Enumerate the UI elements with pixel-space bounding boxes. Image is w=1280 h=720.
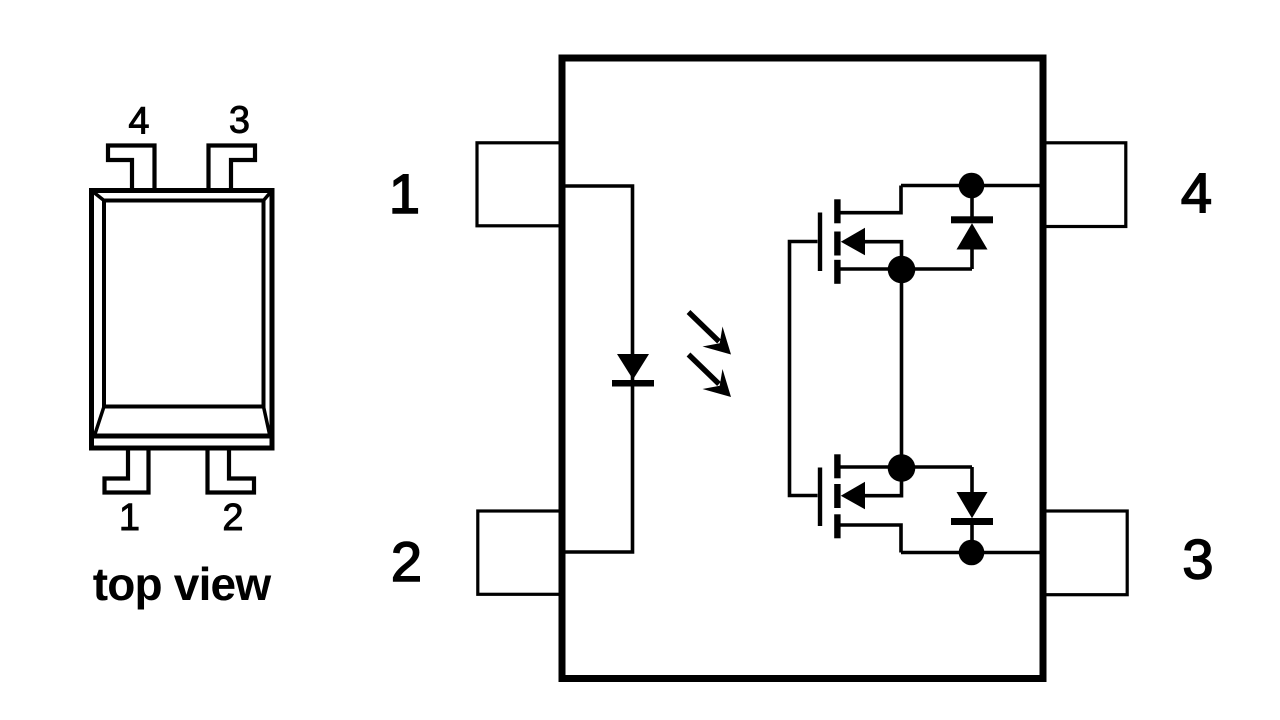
svg-text:top view: top view (93, 558, 272, 610)
package bottom face line (92, 434, 273, 439)
MOSFET Q2 drain wire (837, 525, 901, 553)
pin 3 tab (1043, 511, 1127, 595)
MOSFET Q2 gate bar (818, 468, 822, 527)
light emission arrow 1 (689, 312, 732, 355)
body diode D3 of Q2 (951, 467, 993, 553)
MOSFET Q1 gate bar (818, 213, 822, 272)
wire: pin1 to LED to pin2 (560, 186, 633, 552)
MOSFET Q1 source wire (837, 267, 972, 271)
node dot: Q2 source (888, 454, 916, 482)
MOSFET Q2 source wire (837, 465, 972, 469)
MOSFET Q2 channel dashes (834, 454, 840, 538)
light emission arrow 2 (689, 355, 732, 398)
MOSFET Q1 body wire (863, 242, 902, 269)
pin 4 lead (top-left) (108, 146, 155, 191)
svg-text:3: 3 (1182, 528, 1213, 591)
pin 4 tab (1043, 143, 1126, 227)
wire: source-source link (900, 269, 904, 468)
pin 3 lead (top-right) (209, 146, 256, 191)
node dot: Q1 source (888, 256, 916, 284)
node dot: drain bottom (959, 540, 985, 566)
LED D1 triangle (617, 354, 649, 380)
pin 1 lead (bottom-left) (105, 446, 149, 493)
MOSFET Q2 body wire (863, 468, 902, 496)
pin 1 tab (477, 143, 562, 226)
MOSFET Q1 channel dashes (834, 199, 840, 283)
wire: bottom rail to pin 3 (901, 551, 1043, 555)
svg-text:1: 1 (119, 497, 140, 539)
MOSFET Q1 body arrow (841, 228, 865, 256)
pin 2 tab (478, 511, 562, 594)
LED D1 cathode bar (612, 380, 654, 387)
package body outer outline (92, 191, 273, 449)
svg-text:3: 3 (229, 100, 250, 142)
MOSFET Q2 body arrow (841, 482, 865, 510)
body diode D2 of Q1 (951, 186, 993, 270)
svg-text:1: 1 (389, 162, 420, 225)
node dot: drain top (959, 173, 985, 199)
package corner bevel diagonals (92, 191, 273, 435)
svg-text:4: 4 (1181, 161, 1212, 224)
MOSFET Q1 drain wire (837, 186, 901, 213)
gate bus wire (790, 242, 818, 496)
svg-text:2: 2 (222, 497, 243, 539)
IC body outline (562, 58, 1043, 679)
package body inner bevel (104, 201, 264, 407)
svg-text:4: 4 (128, 101, 149, 143)
pin 2 lead (bottom-right) (208, 446, 255, 493)
wire: top rail to pin 4 (901, 184, 1043, 188)
svg-text:2: 2 (391, 530, 422, 593)
